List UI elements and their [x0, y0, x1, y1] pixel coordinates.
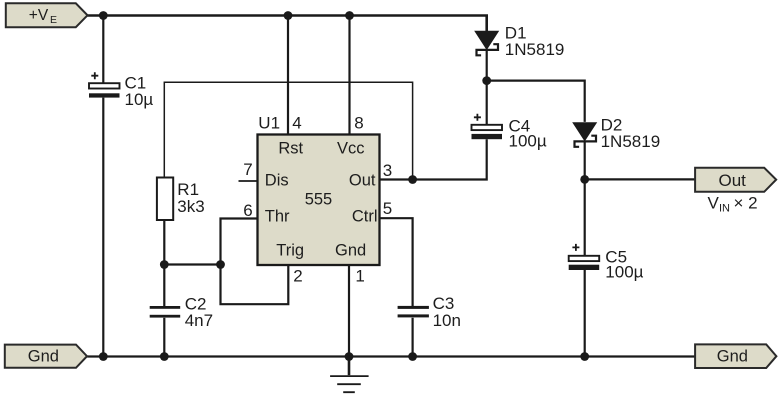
svg-text:3: 3	[383, 161, 392, 180]
label C5 100µ	[605, 247, 643, 281]
ground symbol	[330, 357, 369, 393]
flag Gnd left	[5, 345, 87, 368]
svg-text:Dis: Dis	[265, 172, 289, 190]
wire C1 top	[102, 16, 104, 84]
svg-text:Rst: Rst	[278, 140, 303, 158]
svg-text:2: 2	[293, 266, 302, 285]
svg-text:Gnd: Gnd	[335, 242, 366, 260]
pin 5 label	[383, 199, 392, 218]
node Thr/Trig	[216, 260, 225, 269]
svg-text:Gnd: Gnd	[28, 348, 59, 366]
svg-text:3k3: 3k3	[177, 197, 204, 216]
wire R1 bottom to node	[163, 220, 165, 265]
label D2 1N5819	[601, 115, 661, 151]
svg-text:4: 4	[292, 114, 301, 133]
wire Thr node to R1/C2 node	[164, 263, 220, 265]
resistor R1 3k3	[157, 178, 173, 221]
pin 7 label	[243, 160, 252, 179]
svg-text:+V: +V	[29, 7, 49, 24]
node ground / C2	[160, 352, 169, 361]
node D2/Out	[580, 175, 589, 184]
wire pin 3 Out to C4 corner	[380, 139, 487, 179]
svg-text:Trig: Trig	[276, 242, 304, 260]
svg-text:1N5819: 1N5819	[601, 132, 661, 151]
svg-text:7: 7	[243, 160, 252, 179]
node Out	[408, 175, 417, 184]
pin 4 label	[292, 114, 301, 133]
flag Gnd right	[695, 344, 776, 368]
wire C1 bottom to ground rail	[102, 98, 104, 357]
capacitor C4 100µ	[472, 114, 503, 139]
svg-text:10µ: 10µ	[125, 90, 154, 109]
wire pin 2 Trig loop	[221, 265, 289, 305]
wire D1 node to D2 anode	[487, 81, 585, 122]
wire pin 8 to top rail	[348, 16, 350, 135]
svg-text:100µ: 100µ	[509, 132, 547, 151]
svg-text:5: 5	[383, 199, 392, 218]
svg-text:10n: 10n	[433, 311, 461, 330]
pin 8 label	[354, 114, 363, 133]
diode D1 1N5819	[475, 31, 498, 55]
svg-text:E: E	[50, 14, 57, 26]
svg-text:× 2: × 2	[734, 194, 758, 213]
wire C3 bottom	[412, 318, 414, 357]
capacitor C1 10µ	[89, 72, 120, 97]
wire C2 top	[163, 265, 165, 307]
svg-text:4n7: 4n7	[185, 311, 213, 330]
wire pin 4 to top rail	[287, 16, 289, 135]
label R1 3k3	[177, 180, 204, 216]
wire top rail from +VE to D1	[88, 16, 487, 32]
node ground / C1	[99, 352, 108, 361]
flag Out	[695, 168, 776, 192]
wire feedback R1 to Out node (thin)	[164, 82, 412, 179]
node top rail / C1	[99, 11, 108, 20]
svg-text:Vcc: Vcc	[337, 140, 365, 158]
wire pin 7 Dis stub	[239, 180, 258, 182]
pin 2 label	[293, 266, 302, 285]
wire C4 top	[486, 81, 488, 125]
svg-text:8: 8	[354, 114, 363, 133]
node R1/C2	[160, 260, 169, 269]
flag +VE	[6, 3, 88, 27]
pin 6 label	[243, 201, 252, 220]
node top rail / pin 4	[284, 11, 293, 20]
svg-text:6: 6	[243, 201, 252, 220]
label C3 10n	[433, 294, 461, 330]
svg-text:Out: Out	[719, 171, 747, 190]
svg-text:555: 555	[305, 191, 333, 209]
svg-text:1N5819: 1N5819	[505, 40, 565, 59]
label C1 10µ	[125, 73, 154, 109]
svg-text:Out: Out	[349, 172, 376, 190]
wire node to Out flag	[585, 178, 695, 180]
capacitor C5 100µ	[569, 244, 600, 270]
svg-text:Gnd: Gnd	[717, 348, 748, 366]
wire pin 5 Ctrl to C3	[380, 218, 413, 306]
svg-text:V: V	[708, 194, 720, 213]
wire C5 top	[584, 179, 586, 255]
wire ground rail	[87, 355, 695, 357]
svg-text:1: 1	[355, 266, 364, 285]
wire C5 bottom	[584, 270, 586, 357]
diode D2 1N5819	[573, 123, 596, 147]
IC U1 555	[258, 135, 380, 266]
capacitor C2 4n7	[150, 306, 181, 318]
wire D2 cathode to node	[584, 141, 586, 179]
label VIN x 2	[708, 194, 758, 215]
node top rail / pin 8	[345, 11, 354, 20]
label D1 1N5819	[505, 24, 565, 59]
svg-text:Thr: Thr	[265, 208, 290, 226]
capacitor C3 10n	[398, 306, 429, 318]
pin 1 label	[355, 266, 364, 285]
pin 3 label	[383, 161, 392, 180]
node ground / C3	[408, 352, 417, 361]
wire C2 bottom	[163, 318, 165, 357]
node D1/C4	[482, 76, 491, 85]
label C2 4n7	[185, 295, 213, 331]
node ground / pin 1	[345, 352, 354, 361]
svg-text:Ctrl: Ctrl	[352, 208, 378, 226]
svg-text:IN: IN	[719, 203, 730, 215]
label C4 100µ	[509, 117, 547, 151]
svg-text:U1: U1	[258, 114, 280, 133]
wire pin 6 Thr	[221, 219, 258, 265]
svg-text:100µ: 100µ	[605, 262, 643, 281]
node ground / C5	[580, 352, 589, 361]
label U1	[258, 114, 280, 133]
wire pin 1 Gnd to ground rail	[348, 265, 350, 357]
wire D1 cathode to node	[486, 50, 488, 81]
